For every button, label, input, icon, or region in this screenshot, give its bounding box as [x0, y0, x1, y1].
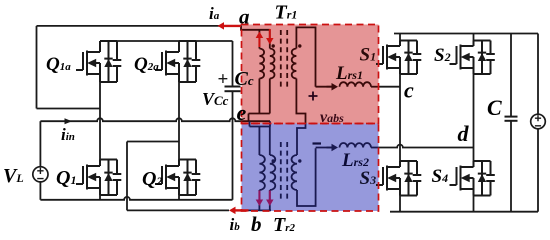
output source branch — [537, 34, 539, 115]
Tr1 winding bottoms to node e staircase — [258, 79, 260, 114]
label + of v_abs — [309, 92, 318, 101]
node a top rail — [37, 25, 242, 27]
transistor S1 — [376, 41, 421, 75]
red dashed border Tr2 — [242, 124, 379, 212]
transistor S2 — [450, 41, 495, 75]
current arrow i_a — [223, 25, 241, 27]
output voltage source circle — [531, 114, 546, 129]
svg-text:C: C — [487, 95, 502, 120]
Tr1 winding2 current arrow down — [269, 29, 271, 39]
node c vertical S1 source to S3 drain — [399, 74, 401, 161]
Tr1 red highlight box — [242, 25, 379, 124]
Tr2 winding top leads — [258, 127, 260, 156]
Q1 source stub — [99, 195, 101, 200]
current arrow i_b — [235, 209, 249, 211]
L_rs2 wire with inductor — [316, 147, 332, 149]
transistor Q1 — [76, 160, 121, 196]
Tr2 core dashed lines — [280, 142, 282, 202]
bridge bottom rail — [390, 211, 538, 213]
S2 drain stub — [473, 34, 475, 41]
svg-text:b: b — [251, 212, 262, 235]
svg-text:d: d — [458, 121, 470, 146]
Tr1 polarity dots — [272, 44, 275, 47]
current direction arrow into L_rs2 — [327, 147, 333, 149]
transistor Q2 — [155, 160, 200, 196]
svg-text:+: + — [218, 69, 229, 90]
V_L minus rail to Q1/Q2 sources and Cc bottom (hop at 127) — [40, 197, 232, 200]
red dashed border Tr1 — [242, 25, 379, 124]
transistor Q2a — [155, 41, 200, 82]
Tr2 winding bottoms to node b — [258, 190, 260, 210]
Tr2 secondary bottom to L_rs2 corner — [297, 148, 316, 206]
label - of v_abs — [313, 142, 322, 144]
node c wire from L_rs1 — [379, 86, 401, 88]
S1 drain stub — [399, 34, 401, 41]
svg-text:c: c — [404, 78, 414, 103]
bridge top rail — [394, 33, 538, 35]
Q2 source stub — [178, 195, 180, 200]
Tr2 winding1 current arrow down — [258, 191, 260, 201]
node d wire from L_rs2 (hop at 400) — [379, 145, 474, 148]
vertical Q1a source to Q1 drain — [99, 82, 101, 160]
Tr1 primary winding 1 top lead — [258, 30, 260, 49]
left frame wire (node a wrap to Q1 drain) — [36, 26, 38, 109]
S3 source stub — [399, 196, 401, 212]
capacitor Cc — [232, 41, 234, 87]
Tr2 winding 1 — [259, 155, 264, 190]
output capacitor C branch — [510, 34, 512, 117]
voltage source V_L circle — [33, 167, 48, 182]
Tr2 blue highlight box — [242, 124, 379, 212]
V_L source branch — [39, 121, 41, 167]
Tr2 winding2 current arrow down — [269, 191, 271, 201]
transistor S3 — [376, 161, 421, 196]
svg-text:vabs: vabs — [320, 109, 344, 126]
svg-text:a: a — [239, 5, 250, 29]
S4 source stub — [473, 196, 475, 212]
node e wire inside box — [241, 120, 271, 122]
S2 source to node d — [473, 74, 475, 148]
vertical Q2a source to Q2 drain — [178, 82, 180, 160]
Tr1 secondary winding — [292, 49, 297, 79]
node a rail step inside box — [241, 26, 270, 30]
node b wrap wire: Q2 drain to b-wire — [127, 141, 179, 143]
Tr1 winding 2 (primary) — [270, 49, 275, 79]
transistor S4 — [450, 161, 495, 196]
svg-text:e: e — [237, 100, 247, 125]
clamp rail Q1a/Q2a drains + Cc top — [100, 40, 233, 42]
transistor Q1a — [76, 41, 121, 82]
L_rs1 wire with inductor — [316, 86, 333, 88]
Tr1 secondary bottom zigzag to Tr2 secondary — [296, 79, 305, 124]
Tr2 secondary top lead — [296, 134, 298, 155]
S4 drain stub — [473, 148, 475, 162]
Tr1 primary winding 2 top lead — [269, 30, 271, 49]
Tr1 core dashed lines — [280, 30, 282, 90]
Tr1 winding1 current arrow up — [258, 37, 260, 47]
Tr2 secondary winding — [292, 155, 297, 190]
node b bottom wire — [127, 209, 229, 211]
Tr1 winding 1 (magnetizing) — [259, 49, 264, 79]
Tr2 winding 2 — [270, 155, 275, 190]
Tr2 polarity dots — [272, 159, 275, 162]
current direction arrow into L_rs1 — [327, 86, 333, 88]
i_in wire V_L+ to node e (hops at 100,179,231) — [40, 118, 241, 121]
node e step down to Tr2 — [250, 121, 271, 126]
i_in current arrow on wire — [65, 118, 73, 124]
Tr1 secondary top lead to v_abs+ — [296, 27, 315, 86]
